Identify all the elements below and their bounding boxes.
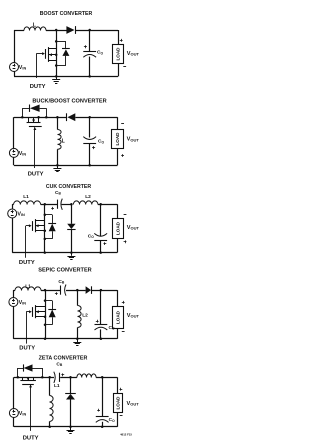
polarity - of load xyxy=(120,415,123,417)
node inductor junction xyxy=(56,116,59,119)
voltage source VIN xyxy=(9,409,18,418)
wire load top xyxy=(118,30,120,45)
wire L2 bottom xyxy=(77,328,79,339)
wire bottom rail xyxy=(12,252,117,254)
wire load bottom xyxy=(118,63,120,76)
wire left input xyxy=(13,290,15,297)
node Q source ground junction xyxy=(44,251,47,254)
capacitor C_B xyxy=(57,200,59,209)
node switch junction xyxy=(44,289,47,292)
node L1 ground junction xyxy=(48,426,51,429)
mosfet switch Q xyxy=(26,225,30,227)
polarity + of C_B xyxy=(61,374,64,376)
svg-text:L2: L2 xyxy=(85,194,91,200)
node C_O ground junction xyxy=(101,426,104,429)
wire L bottom xyxy=(57,149,59,165)
polarity + of load xyxy=(120,40,123,42)
inductor L2 xyxy=(78,306,82,328)
wire gate duty line xyxy=(36,54,38,78)
node source-ground junction xyxy=(55,75,58,78)
capacitor C_O xyxy=(83,143,96,145)
wire load bottom xyxy=(117,328,119,339)
wire load bottom xyxy=(117,149,119,166)
capacitor C_B xyxy=(60,286,62,295)
polarity - of load xyxy=(122,331,125,333)
node mosfet right stub xyxy=(37,116,40,119)
svg-text:CB: CB xyxy=(56,361,62,367)
svg-text:LOAD: LOAD xyxy=(116,310,121,324)
svg-text:L1: L1 xyxy=(23,194,29,200)
svg-text:CO: CO xyxy=(97,50,103,56)
wire bottom rail xyxy=(14,76,118,78)
node body diode mid xyxy=(44,230,47,233)
svg-text:CO: CO xyxy=(88,234,94,240)
load box xyxy=(112,130,124,149)
mosfet Q drain/source line xyxy=(44,204,46,252)
body diode of Q xyxy=(45,300,52,302)
wire bottom rail xyxy=(14,165,118,167)
svg-text:CO: CO xyxy=(109,417,115,423)
svg-text:LOAD: LOAD xyxy=(116,396,121,410)
wire top rail xyxy=(14,30,24,32)
wire VIN to bottom rail xyxy=(13,417,15,426)
svg-text:L2: L2 xyxy=(82,312,88,318)
node C_O ground junction xyxy=(100,338,103,341)
ground xyxy=(71,253,73,256)
node output cap junction xyxy=(101,376,104,379)
wire gate duty line xyxy=(26,312,28,344)
svg-text:VOUT: VOUT xyxy=(127,313,140,319)
wire diode bottom xyxy=(71,230,73,253)
body diode of Q xyxy=(24,364,33,371)
mosfet switch Q xyxy=(36,53,42,55)
node C_O ground junction xyxy=(88,75,91,78)
body diode of Q xyxy=(45,214,52,216)
svg-text:DUTY: DUTY xyxy=(23,435,39,441)
wire load bottom xyxy=(117,413,119,427)
capacitor C_O xyxy=(94,240,107,242)
capacitor C_O xyxy=(96,416,109,418)
svg-text:CB: CB xyxy=(58,279,64,285)
polarity + of load xyxy=(124,241,127,243)
node body loop right xyxy=(45,116,48,119)
inductor L1 xyxy=(50,396,54,422)
wire gate duty line xyxy=(30,385,32,431)
node L ground junction xyxy=(56,164,59,167)
inductor L2 xyxy=(73,201,98,205)
node body diode mid xyxy=(55,53,58,56)
wire VIN to bottom rail xyxy=(13,307,15,339)
node diode junction xyxy=(70,203,73,206)
node C_O ground junction xyxy=(99,251,102,254)
svg-text:CUK CONVERTER: CUK CONVERTER xyxy=(46,184,92,190)
node output cap junction xyxy=(88,116,91,119)
svg-text:VIN: VIN xyxy=(19,65,27,71)
wire gate duty line xyxy=(25,226,27,258)
wire L1 bottom xyxy=(49,422,51,427)
mosfet switch Q xyxy=(26,311,29,313)
wire C_O top xyxy=(100,204,102,236)
wire load top xyxy=(117,290,119,306)
rectifier diode D xyxy=(86,286,92,294)
polarity + of C_O xyxy=(96,321,99,323)
polarity + of C_O xyxy=(84,46,87,48)
node body diode top xyxy=(44,299,47,302)
wire left input xyxy=(13,117,15,148)
capacitor C_B xyxy=(59,373,61,382)
inductor L xyxy=(24,27,46,31)
wire diode top xyxy=(71,204,73,224)
wire L2 top xyxy=(77,290,79,305)
svg-text:VIN: VIN xyxy=(19,411,27,417)
wire VIN to bottom rail xyxy=(12,218,14,253)
load box xyxy=(113,45,124,64)
node body diode bottom xyxy=(44,324,47,327)
ground xyxy=(70,427,72,430)
wire gate duty line xyxy=(34,127,36,168)
node body diode mid xyxy=(44,316,47,319)
svg-text:VOUT: VOUT xyxy=(127,401,140,407)
inductor L1 xyxy=(15,287,41,291)
mosfet switch Q drain/source line xyxy=(56,30,58,76)
svg-text:L1: L1 xyxy=(25,283,31,289)
mosfet Q drain/source line xyxy=(45,290,47,339)
inductor L1 xyxy=(14,201,41,205)
node output cap junction xyxy=(88,29,91,32)
polarity + of C_O xyxy=(104,243,107,245)
svg-text:LOAD: LOAD xyxy=(116,47,121,61)
svg-text:VOUT: VOUT xyxy=(127,51,140,57)
node inductor L1 junction xyxy=(48,376,51,379)
wire C_O bottom xyxy=(89,57,91,77)
wire C_O bottom xyxy=(89,143,91,165)
polarity - of load xyxy=(123,66,126,68)
rectifier diode D xyxy=(67,224,75,229)
inductor L xyxy=(58,130,62,150)
node switch junction xyxy=(44,203,47,206)
wire L1 top xyxy=(49,377,51,395)
wire C_O bottom xyxy=(100,329,102,338)
wire diode bottom xyxy=(70,400,72,427)
node output cap junction xyxy=(100,289,103,292)
wire bottom rail xyxy=(13,338,117,340)
node diode junction xyxy=(69,376,72,379)
wire left input xyxy=(12,204,14,209)
polarity + of load xyxy=(121,155,124,157)
wire top rail xyxy=(14,377,54,379)
node body diode bottom xyxy=(55,64,58,67)
load box xyxy=(113,219,124,239)
polarity + of C_O xyxy=(97,410,100,412)
svg-text:BOOST CONVERTER: BOOST CONVERTER xyxy=(40,11,93,17)
wire load top xyxy=(117,117,119,129)
svg-text:DUTY: DUTY xyxy=(19,260,35,266)
rectifier diode D xyxy=(66,394,75,400)
svg-text:CO: CO xyxy=(98,139,104,145)
node L2 junction xyxy=(76,289,79,292)
wire diode top xyxy=(70,377,72,393)
wire left input xyxy=(13,377,15,408)
voltage source VIN xyxy=(10,63,19,72)
voltage source VIN xyxy=(8,209,17,218)
ground xyxy=(77,339,79,342)
load box xyxy=(113,307,124,329)
capacitor C_O xyxy=(83,51,96,53)
voltage source VIN xyxy=(9,298,18,307)
voltage source VIN xyxy=(9,148,18,157)
node body diode bottom xyxy=(44,238,47,241)
mosfet switch Q xyxy=(22,377,24,381)
wire C_O top xyxy=(100,290,102,324)
node output cap junction xyxy=(99,203,102,206)
svg-text:LOAD: LOAD xyxy=(116,221,121,235)
svg-text:LOAD: LOAD xyxy=(115,132,120,146)
svg-text:VIN: VIN xyxy=(19,300,27,306)
svg-text:DUTY: DUTY xyxy=(30,84,46,90)
body diode of Q xyxy=(56,41,66,43)
polarity + of load xyxy=(120,389,123,391)
wire VIN to ground rail xyxy=(14,71,16,76)
svg-text:BUCK/BOOST CONVERTER: BUCK/BOOST CONVERTER xyxy=(32,98,106,104)
svg-text:4612 F15: 4612 F15 xyxy=(120,433,132,437)
body diode loop of Q xyxy=(22,108,24,117)
svg-text:DUTY: DUTY xyxy=(28,171,44,177)
svg-text:VOUT: VOUT xyxy=(127,225,140,231)
node body loop left xyxy=(21,116,24,119)
load box xyxy=(114,394,123,413)
wire C_O top xyxy=(89,30,91,52)
inductor L2 xyxy=(77,374,96,378)
svg-text:DUTY: DUTY xyxy=(19,346,35,352)
polarity + of C_O xyxy=(92,147,95,149)
body diode of Q xyxy=(30,105,40,112)
polarity + of C_B xyxy=(55,293,58,295)
polarity + of load xyxy=(122,302,125,304)
polarity - of load xyxy=(121,123,124,125)
node diode ground junction xyxy=(70,251,73,254)
node L2 ground junction xyxy=(76,338,79,341)
wire top rail xyxy=(14,117,67,119)
rectifier diode D xyxy=(67,113,75,121)
svg-text:VOUT: VOUT xyxy=(127,137,140,143)
svg-text:SEPIC CONVERTER: SEPIC CONVERTER xyxy=(38,268,91,274)
ground xyxy=(57,165,59,168)
wire load top xyxy=(117,204,119,218)
polarity - of load xyxy=(124,214,127,216)
wire VIN to bottom rail xyxy=(13,157,15,165)
node body loop left xyxy=(17,376,20,379)
svg-text:CB: CB xyxy=(55,190,61,196)
svg-text:VIN: VIN xyxy=(17,212,25,218)
ground xyxy=(56,76,58,79)
svg-text:CO: CO xyxy=(109,325,115,331)
node Q source ground junction xyxy=(44,338,47,341)
svg-text:L1: L1 xyxy=(54,383,60,389)
capacitor C_O xyxy=(95,324,108,326)
rectifier diode D xyxy=(66,26,74,34)
node body diode top xyxy=(44,213,47,216)
wire top rail xyxy=(12,204,13,206)
mosfet switch Q xyxy=(28,117,30,123)
polarity + of C_B xyxy=(51,208,54,210)
wire left input xyxy=(14,30,16,63)
wire top rail xyxy=(13,290,15,292)
wire C_O top xyxy=(102,377,104,417)
wire C_O top xyxy=(89,117,91,137)
wire load bottom xyxy=(117,238,119,252)
wire C_O bottom xyxy=(102,422,104,427)
node C_O ground junction xyxy=(88,164,91,167)
node switch-rail junction xyxy=(55,29,58,32)
wire load top xyxy=(117,377,119,393)
body diode loop of Q xyxy=(17,368,19,377)
node body loop right xyxy=(41,376,44,379)
node diode ground junction xyxy=(69,426,72,429)
wire bottom rail xyxy=(14,426,118,428)
svg-text:ZETA CONVERTER: ZETA CONVERTER xyxy=(39,356,88,362)
wire L top xyxy=(57,117,59,129)
svg-text:VIN: VIN xyxy=(19,151,27,157)
node body diode top xyxy=(55,40,58,43)
wire C_O bottom xyxy=(100,240,102,252)
